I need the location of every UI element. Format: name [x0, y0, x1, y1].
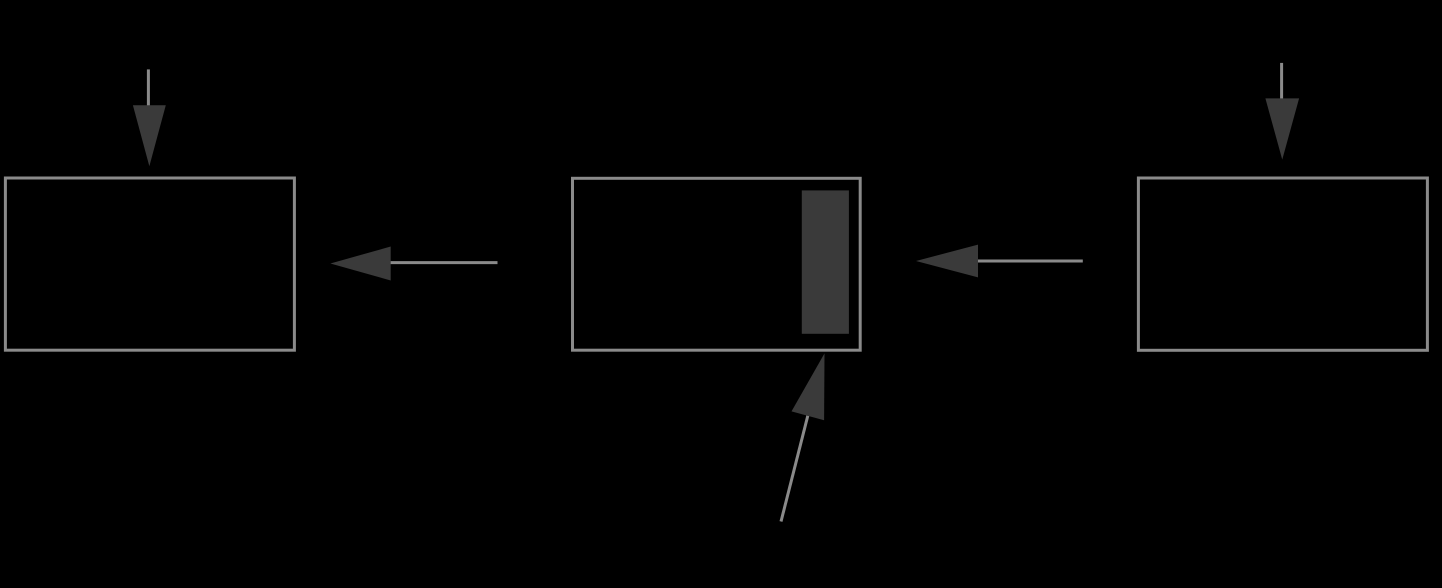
highlight bar inside middle block [802, 190, 849, 333]
diagonal arrow pointing at highlight bar [781, 353, 825, 521]
arrow down into right block [1265, 63, 1299, 160]
block left [5, 178, 294, 350]
block middle [573, 178, 861, 350]
arrow right-to-middle [916, 245, 1083, 278]
block right [1138, 178, 1427, 350]
arrow down into left block [133, 69, 166, 166]
arrow middle-to-left [330, 247, 497, 281]
